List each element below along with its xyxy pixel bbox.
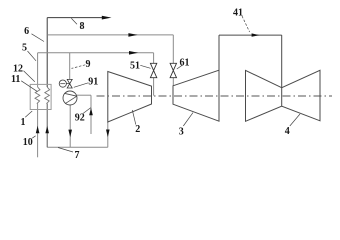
wire return riser x47 below boiler	[46, 104, 48, 148]
leader 2	[132, 110, 136, 125]
arrow down on pump drop	[68, 130, 72, 138]
turbine 4 waist line	[281, 88, 283, 107]
svg-text:51: 51	[130, 61, 140, 72]
arrow on line 8	[102, 16, 112, 20]
wire feedwater line 10	[37, 104, 39, 158]
turbine 3	[173, 70, 219, 121]
gauge tick	[60, 83, 65, 85]
wire turbine 4 inlet drop x281.7	[281, 35, 283, 88]
arrow down on turbine 2 exhaust	[106, 130, 110, 138]
boiler 1 box	[30, 84, 51, 109]
gauge to valve link	[66, 83, 69, 85]
wire condensate riser 92	[90, 95, 92, 134]
leader 1	[25, 111, 32, 117]
valve 61	[170, 63, 176, 77]
gauge circle at valve 91	[59, 80, 66, 87]
leader 92	[83, 108, 91, 114]
leader 6	[32, 34, 45, 42]
arrow on line 41	[252, 33, 260, 36]
leader 7	[58, 148, 73, 153]
svg-text:5: 5	[22, 43, 27, 54]
wire pump discharge horizontal	[77, 94, 91, 96]
leader 5	[28, 51, 37, 61]
wire valve 61 outlet to turbine 3	[172, 78, 174, 86]
wire line 8 top export	[47, 17, 102, 19]
wire header line 5	[38, 52, 154, 54]
wire pump bottom drop x70.2	[69, 105, 71, 147]
turbine 4 body	[246, 70, 321, 121]
arrow on line 6	[128, 33, 137, 37]
svg-text:10: 10	[23, 137, 33, 148]
svg-text:3: 3	[179, 126, 184, 137]
wire line 7 bottom return	[47, 146, 108, 148]
svg-text:7: 7	[75, 150, 80, 161]
wire turbine 2 exhaust drop x107.8	[107, 122, 109, 147]
svg-text:1: 1	[21, 117, 26, 128]
wire valve 51 outlet to turbine 2	[153, 78, 155, 96]
leader 12	[24, 71, 35, 82]
leader 91	[74, 83, 89, 88]
heating element 12 zigzag	[45, 87, 50, 104]
svg-text:91: 91	[88, 77, 98, 88]
valve 91	[67, 79, 72, 88]
leader 11	[21, 81, 37, 92]
wire pump riser to header x69.7	[69, 53, 71, 80]
leader 61	[177, 65, 183, 69]
arrow up on feedwater 10	[36, 126, 40, 134]
leader 51	[140, 65, 150, 68]
svg-text:9: 9	[86, 59, 91, 70]
leader 3	[183, 113, 193, 126]
svg-text:11: 11	[11, 74, 20, 85]
svg-text:8: 8	[80, 21, 85, 32]
leader 9 dashed	[72, 65, 86, 69]
svg-text:6: 6	[24, 26, 29, 37]
svg-text:4: 4	[285, 126, 290, 137]
leader 4	[290, 114, 300, 126]
wire feed drop x37.6 to boiler	[37, 53, 39, 87]
shaft centerline	[97, 95, 333, 97]
arrow up on riser 92	[89, 108, 93, 116]
svg-text:92: 92	[75, 113, 85, 124]
svg-text:61: 61	[180, 57, 190, 68]
pump 9 circle	[63, 91, 77, 105]
wire drop from header to valve 51	[153, 53, 155, 64]
valve 51	[150, 63, 156, 77]
leader 10	[32, 136, 35, 138]
heating element 11 zigzag	[35, 87, 40, 104]
leader 8	[71, 18, 77, 24]
turbine 2	[108, 72, 152, 123]
wire line 41 horizontal	[219, 34, 282, 36]
wire line 6 to valve 61	[47, 34, 173, 36]
svg-text:41: 41	[233, 7, 243, 18]
wire drop from line 6 to valve 61	[172, 35, 174, 63]
arrow up on return riser	[45, 126, 49, 134]
wire turbine 3 top riser x219	[218, 35, 220, 70]
pump 9 vanes	[64, 93, 77, 103]
leader 41 dashed	[242, 16, 250, 32]
wire steam main vertical x47	[46, 18, 48, 87]
arrow on header 5	[129, 51, 138, 55]
svg-text:12: 12	[13, 64, 23, 75]
svg-text:2: 2	[135, 124, 140, 135]
